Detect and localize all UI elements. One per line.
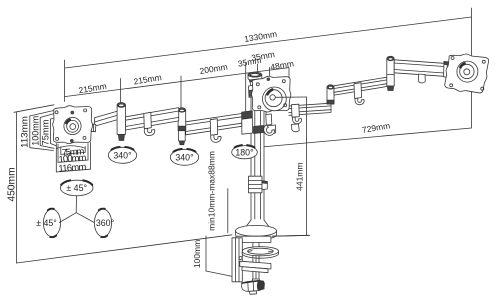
left VESA plate (53, 106, 93, 144)
bottom bracket 100mm (58, 144, 88, 163)
joint J6R pin (387, 56, 394, 90)
joint J4R pin (327, 85, 334, 104)
cable hook H3 (292, 124, 300, 132)
joint J2 pin (178, 108, 186, 145)
dimension 100mm clamp (206, 236, 243, 279)
svg-text:340°: 340° (113, 151, 131, 161)
svg-text:450mm: 450mm (6, 167, 17, 201)
left plate hinge knuckle (91, 124, 96, 132)
svg-text:35mm: 35mm (237, 55, 262, 69)
screw shaft upper (253, 243, 259, 248)
clamp C column (232, 238, 242, 282)
right arm inner segment (266, 103, 331, 117)
svg-text:200mm: 200mm (199, 62, 229, 77)
+-45 horizontal oval (60, 179, 93, 196)
left bracket 75mm (51, 118, 56, 146)
left bracket 113mm (30, 111, 54, 151)
dimension 729mm (262, 128, 472, 147)
dimension line 215/215/200/35/35/48 (65, 63, 289, 114)
T-knob (242, 279, 265, 294)
left arm outer segment (126, 108, 179, 130)
left bracket 100mm (40, 114, 54, 149)
svg-text:± 45°: ± 45° (66, 183, 87, 193)
svg-text:75mm: 75mm (41, 119, 52, 145)
joint J1 pin (117, 103, 125, 141)
svg-text:48mm: 48mm (270, 58, 295, 72)
clamp top bracket (236, 236, 271, 242)
bottom bracket 75mm (61, 146, 85, 154)
text labels slanted dims (78, 29, 391, 135)
pole base cone (247, 220, 269, 226)
360 vertical oval (94, 208, 111, 238)
right plate hinge knuckle (444, 62, 451, 78)
lower clamp jaw (240, 261, 271, 273)
dimension 1330mm line (65, 17, 472, 102)
adjustment ring (242, 247, 278, 259)
+-45 vertical oval (43, 208, 60, 238)
dimension min10mm-max88mm (227, 189, 229, 233)
svg-text:360°: 360° (96, 218, 114, 228)
svg-text:113mm: 113mm (20, 116, 31, 148)
pole collar left arm (242, 111, 253, 134)
screw shaft lower (253, 256, 259, 281)
band clamp outer right arm (354, 83, 364, 105)
left arm inner segment (186, 114, 242, 135)
svg-text:441mm: 441mm (295, 163, 305, 191)
pole collar right arm (254, 125, 276, 134)
dimension 441mm (273, 97, 310, 236)
base disc (235, 225, 276, 240)
svg-text:116mm: 116mm (58, 162, 87, 175)
dimension 450mm (14, 105, 232, 263)
pole top cap (248, 72, 262, 81)
center plate hinge bracket (249, 79, 261, 97)
right arm outer segment (334, 77, 390, 95)
center pole (251, 79, 264, 220)
Y pivot symbol (59, 196, 94, 222)
svg-text:180°: 180° (235, 147, 253, 157)
right VESA plate (445, 54, 489, 93)
180 oval (232, 144, 258, 159)
cable hook H2 (210, 119, 221, 143)
left plate link bar (95, 111, 118, 126)
svg-text:100mm: 100mm (192, 240, 202, 268)
svg-text:729mm: 729mm (361, 120, 391, 135)
bottom bracket 116mm (56, 143, 90, 173)
band clamp inner right arm (292, 104, 302, 124)
cable hook H4 (418, 74, 425, 83)
svg-text:min10mm-max88mm: min10mm-max88mm (207, 151, 217, 231)
right plate link (394, 60, 444, 77)
svg-text:340°: 340° (175, 153, 193, 163)
mask under center plate (267, 110, 289, 121)
340 oval 1 (108, 146, 136, 163)
right extension vertical line (470, 8, 472, 128)
cable hook below center (264, 114, 275, 135)
340 oval 2 (170, 148, 198, 165)
plate bottom wave edge (57, 146, 85, 149)
desk top right line (273, 234, 310, 237)
svg-text:± 45°: ± 45° (36, 218, 57, 228)
center VESA plate (251, 76, 290, 112)
pole height collar (249, 176, 268, 193)
cable hook H1 (144, 112, 155, 135)
